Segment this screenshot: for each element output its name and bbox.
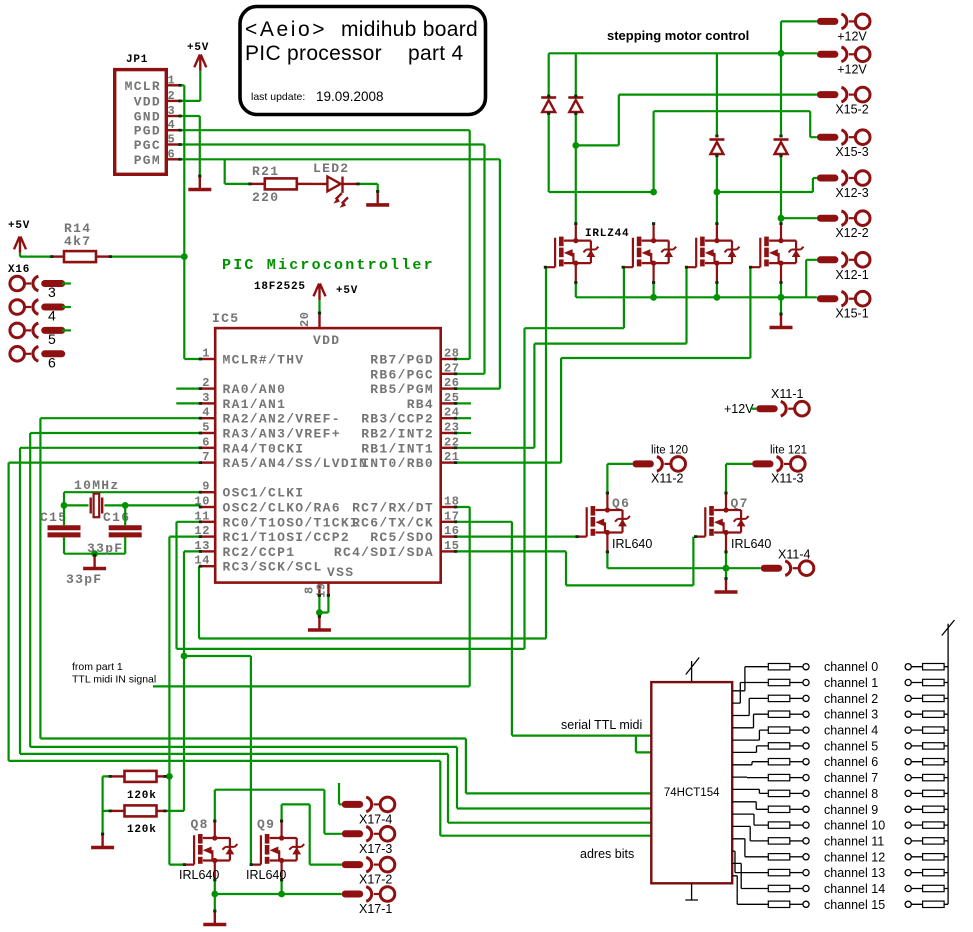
svg-text:3: 3 (168, 104, 176, 118)
wire VSS pins to ground (319, 595, 328, 612)
LED LED2 (311, 177, 358, 193)
wire stub RB3 (456, 417, 471, 419)
IC5 pin 2 RA0/AN0 (200, 387, 215, 389)
connector pin +12V (820, 14, 870, 29)
svg-text:28: 28 (444, 347, 460, 361)
svg-text:RB3/CCP2: RB3/CCP2 (361, 412, 434, 427)
svg-text:channel 6: channel 6 (824, 755, 878, 769)
svg-text:channel 8: channel 8 (824, 787, 878, 801)
IC5 pin 26 RB5/PGM (441, 387, 456, 389)
svg-text:RB6/PGC: RB6/PGC (370, 367, 434, 382)
wire 120k1 right (165, 775, 169, 777)
resistor channel 14 (left) (768, 885, 790, 891)
right channel rail (942, 620, 955, 904)
svg-text:channel 11: channel 11 (824, 834, 884, 848)
svg-text:RC4/SDI/SDA: RC4/SDI/SDA (334, 545, 434, 560)
resistor channel 9 (right) (923, 806, 945, 812)
crystal Q1 10MHz (91, 498, 103, 514)
resistor channel 2 (left) (768, 695, 790, 701)
wire 74HCT154 output 11 (732, 826, 768, 841)
node XTAL1 (61, 502, 68, 509)
wire net ADR2: IC5 pin6 RA4 to 74HCT154 (20, 448, 651, 823)
wire D3 to M3 drain (716, 156, 718, 224)
junction 120k2 riser (181, 653, 188, 660)
svg-text:33pF: 33pF (87, 541, 123, 556)
svg-text:PIC processor: PIC processor (245, 42, 382, 65)
IC5 pin 18 RC7/RX/DT (441, 506, 456, 508)
resistor channel 0 (left) (768, 664, 790, 670)
IC5 pin 14 RC3/SCK/SCL (200, 565, 215, 567)
IC5 pin 20 VDD (318, 313, 320, 328)
svg-text:serial TTL midi: serial TTL midi (561, 718, 642, 732)
connector pin X15-1 (820, 291, 870, 306)
svg-text:6: 6 (48, 354, 56, 370)
wire 74HCT154 output 3 (732, 714, 768, 728)
wire 74HCT154 output 4 (732, 730, 768, 740)
svg-text:GND: GND (134, 110, 161, 125)
connector pin X12-2 (820, 211, 870, 226)
connector X11-2 (636, 457, 686, 472)
wire stub RA0 (176, 388, 200, 390)
svg-text:lite 120: lite 120 (651, 445, 688, 457)
wire to ground (IC5 VSS) (318, 613, 320, 617)
svg-text:+5V: +5V (187, 42, 209, 54)
connector pin X12-1 (820, 252, 870, 267)
wire net MIDI-IN: IC5 pin18 RX from part 1 (153, 507, 470, 686)
junction M3 drain net (714, 189, 721, 196)
svg-text:10MHz: 10MHz (74, 478, 120, 493)
IC5 pin 23 RB2/INT2 (441, 432, 456, 434)
IC5 pin 27 RB6/PGC (441, 373, 456, 375)
svg-text:MCLR#/THV: MCLR#/THV (223, 353, 305, 368)
wire net IC5 pin16 RC5 to Q6 gate (456, 535, 577, 537)
wire +5V to R14 (20, 253, 52, 257)
wire Q6 drain to X11-2 (607, 464, 632, 493)
node channel 9 (803, 806, 809, 812)
wire Q9 drain to X17-2 (282, 804, 342, 864)
capacitor C16 (109, 528, 142, 535)
svg-text:RA1/AN1: RA1/AN1 (223, 397, 287, 412)
IC 74HCT154 body (651, 682, 732, 883)
resistor channel 15 (left) (768, 901, 790, 907)
svg-text:4: 4 (48, 308, 56, 324)
junction caps (91, 550, 98, 557)
svg-text:+5V: +5V (8, 220, 30, 232)
wire net ADR1: IC5 pin5 RA3 to 74HCT154 (30, 433, 651, 809)
svg-text:5: 5 (202, 421, 210, 435)
connector pin X12-3 (820, 171, 870, 186)
svg-text:IRL640: IRL640 (731, 537, 771, 551)
title block frame (240, 7, 486, 115)
svg-text:channel 12: channel 12 (824, 850, 885, 864)
svg-text:last update:: last update: (251, 91, 305, 103)
ground (IC5 VSS) (308, 617, 331, 631)
supply +5V (R14) (14, 237, 26, 253)
svg-text:LED2: LED2 (313, 161, 349, 176)
IC5 pin 8 VSS (318, 583, 320, 596)
node XTAL2 (122, 502, 129, 509)
resistor R 120k (1) (125, 771, 157, 782)
svg-text:4k7: 4k7 (64, 234, 91, 249)
svg-text:RA3/AN3/VREF+: RA3/AN3/VREF+ (223, 427, 341, 442)
svg-text:IC5: IC5 (212, 311, 239, 326)
svg-text:Q7: Q7 (731, 496, 749, 511)
svg-text:X12-1: X12-1 (835, 268, 868, 282)
node channel 8 (803, 790, 809, 796)
svg-text:IRL640: IRL640 (612, 537, 652, 551)
svg-text:midihub board: midihub board (341, 18, 478, 41)
wire net X12-3 (717, 178, 817, 192)
resistor channel 6 (right) (923, 759, 945, 765)
svg-text:20: 20 (298, 311, 312, 327)
svg-text:RC0/T1OSO/T1CKI: RC0/T1OSO/T1CKI (223, 515, 360, 530)
pin connection marks (178, 84, 181, 87)
junction source rail M2 (650, 294, 657, 301)
capacitor C15 (48, 528, 81, 535)
junction VSS (316, 609, 323, 616)
wire 74HCT154 output 10 (732, 814, 768, 825)
node channel 7 (803, 775, 809, 781)
wire D2 to M1 drain (575, 114, 577, 224)
node channel 8 (right) (905, 790, 911, 796)
wire 120k2 riser (183, 656, 185, 811)
svg-text:27: 27 (444, 361, 460, 375)
node channel 3 (right) (905, 711, 911, 717)
svg-text:RA4/T0CKI: RA4/T0CKI (223, 441, 305, 456)
ground (crystal) (83, 555, 106, 569)
wire net GATE1: IC5 pin14 RC3 to M1 gate (199, 267, 546, 638)
svg-text:19.09.2008: 19.09.2008 (316, 89, 384, 104)
wire OSC2 / crystal right (104, 504, 200, 506)
svg-text:channel 15: channel 15 (824, 898, 885, 912)
resistor channel 11 (left) (768, 838, 790, 844)
node channel 12 (803, 854, 809, 860)
svg-text:X17-2: X17-2 (359, 873, 392, 887)
connector X11-4 (764, 561, 814, 576)
74HCT154 top no-connect tick (686, 658, 699, 683)
node channel 15 (803, 901, 809, 907)
node channel 7 (right) (905, 775, 911, 781)
svg-text:X15-3: X15-3 (835, 145, 868, 159)
wire net PGD: JP1 pin4 to IC5 pin28 (180, 130, 470, 359)
svg-text:channel 9: channel 9 (824, 803, 878, 817)
wire 74HCT154 output 5 (732, 746, 768, 753)
resistor channel 4 (right) (923, 727, 945, 733)
node channel 14 (right) (905, 885, 911, 891)
node channel 6 (right) (905, 759, 911, 765)
wire 74HCT154 output 8 (732, 789, 768, 793)
svg-text:channel 10: channel 10 (824, 819, 885, 833)
svg-text:X16: X16 (8, 264, 30, 276)
wire sources down (576, 283, 781, 298)
transistor Q8 IRL640 (184, 821, 237, 880)
wire 74HCT154 output 2 (732, 698, 768, 715)
connector pin X15-3 (820, 130, 870, 145)
diode D3 (709, 140, 724, 155)
resistor channel 10 (left) (768, 822, 790, 828)
svg-text:X12-2: X12-2 (835, 226, 868, 240)
wire rail to D4 (780, 53, 782, 136)
node channel 15 (right) (905, 901, 911, 907)
svg-text:channel 2: channel 2 (824, 692, 878, 706)
svg-text:<Aeio>: <Aeio> (245, 18, 327, 41)
X16 pin 5 (10, 323, 62, 338)
svg-text:channel 4: channel 4 (824, 724, 878, 738)
X16 pin 6 (10, 347, 62, 362)
resistor channel 5 (left) (768, 743, 790, 749)
svg-text:JP1: JP1 (126, 54, 148, 66)
wire R14 to MCLR net (110, 256, 184, 258)
resistor channel 8 (left) (768, 790, 790, 796)
wire D1 to M2 drain net (549, 114, 654, 193)
wire 74HCT154 output 1 (732, 683, 768, 704)
node channel 4 (right) (905, 727, 911, 733)
svg-text:PIC Microcontroller: PIC Microcontroller (222, 257, 435, 274)
connector pin X17-2 (345, 857, 395, 872)
IC5 pin 21 INT0/RB0 (441, 461, 456, 463)
junction X12-2 net (778, 215, 785, 222)
svg-text:74HCT154: 74HCT154 (664, 787, 720, 799)
node channel 2 (803, 695, 809, 701)
svg-text:RB1/INT1: RB1/INT1 (361, 441, 434, 456)
svg-text:X11-1: X11-1 (771, 387, 803, 401)
svg-text:RC2/CCP1: RC2/CCP1 (223, 545, 296, 560)
node channel 1 (right) (905, 679, 911, 685)
resistor R21 (250, 183, 265, 185)
svg-text:RB5/PGM: RB5/PGM (370, 382, 434, 397)
wire stub RB2 (456, 432, 471, 434)
wire C16 stems (124, 505, 126, 553)
junction Q8 source (211, 891, 218, 898)
wire net X15-2 (576, 95, 817, 146)
transistor Q6 IRL640 (577, 493, 630, 552)
wire net PGM: JP1 pin6 to IC5 pin26 (180, 159, 500, 388)
wire 74HCT154 output 15 (732, 876, 768, 905)
svg-text:14: 14 (194, 554, 210, 568)
IC5 pin 5 RA3/AN3/VREF+ (200, 432, 215, 434)
IC5 pin 13 RC2/CCP1 (200, 550, 215, 552)
resistor R14 (52, 255, 64, 257)
ground (Q6/Q7) (715, 579, 738, 593)
IC5 pin 15 RC4/SDI/SDA (441, 550, 456, 552)
wire net GATE2: IC5 pin11 RC0 to M2 gate (177, 267, 624, 649)
wire net GATE4: IC5 pin21 RB0 to M4 gate (456, 267, 751, 462)
wire to X11-4 (726, 567, 761, 569)
wire rail to D3 (716, 53, 718, 136)
wire net SERIAL: IC5 pin17 TX to 74HCT154 (456, 522, 652, 753)
wire 74HCT154 output 9 (732, 802, 768, 810)
wire X17-4 stub (339, 783, 342, 804)
svg-text:7: 7 (202, 450, 210, 464)
svg-text:RC7/RX/DT: RC7/RX/DT (352, 501, 434, 516)
IC5 pin 1 MCLR#/THV (200, 358, 215, 360)
svg-text:channel 14: channel 14 (824, 882, 885, 896)
transistor M1 IRLZ44 (545, 224, 598, 283)
svg-text:18F2525: 18F2525 (254, 281, 306, 293)
svg-text:3: 3 (202, 391, 210, 405)
junction source rail M3 (714, 294, 721, 301)
svg-text:RC6/TX/CK: RC6/TX/CK (352, 515, 434, 530)
wire OSC1 to crystal (64, 492, 200, 505)
svg-text:X15-2: X15-2 (835, 103, 868, 117)
connector pin X17-3 (345, 827, 395, 842)
wire net MCLR: JP1 pin1 down to IC5 pin1 (180, 85, 200, 359)
svg-text:adres bits: adres bits (580, 847, 634, 861)
connector pin X17-1 (345, 887, 395, 902)
wire 74HCT154 output 6 (732, 762, 768, 765)
junction source rail M4 (778, 294, 785, 301)
IC5 pin 4 RA2/AN2/VREF- (200, 417, 215, 419)
svg-text:VDD: VDD (313, 333, 340, 348)
svg-text:+12V: +12V (837, 62, 867, 76)
node channel 13 (right) (905, 870, 911, 876)
svg-text:5: 5 (48, 331, 56, 347)
svg-text:+12V: +12V (837, 29, 867, 43)
svg-text:INT0/RB0: INT0/RB0 (361, 456, 434, 471)
svg-text:channel 3: channel 3 (824, 708, 878, 722)
wire net X15-1 source rail (576, 296, 817, 298)
svg-text:part 4: part 4 (408, 42, 464, 65)
ground (Q8/Q9) (203, 911, 226, 925)
svg-text:RB7/PGD: RB7/PGD (370, 353, 434, 368)
junction Q9 source (278, 891, 285, 898)
resistor channel 12 (right) (923, 854, 945, 860)
svg-text:X17-3: X17-3 (359, 842, 392, 856)
ground (LED2) (366, 191, 389, 205)
IC5 pin 19 VSS (327, 583, 329, 596)
node channel 10 (803, 822, 809, 828)
wire to ground (stepper) (780, 297, 782, 314)
resistor channel 1 (right) (923, 679, 945, 685)
node channel 2 (right) (905, 695, 911, 701)
svg-text:RC5/SDO: RC5/SDO (370, 530, 434, 545)
resistor channel 3 (right) (923, 711, 945, 717)
ground (120k) (91, 834, 114, 848)
svg-text:Q8: Q8 (191, 817, 209, 832)
junction M2 drain net (650, 189, 657, 196)
resistor channel 14 (right) (923, 885, 945, 891)
connector JP1 (115, 70, 167, 175)
resistor channel 1 (left) (768, 679, 790, 685)
svg-text:channel 7: channel 7 (824, 771, 878, 785)
svg-text:120k: 120k (127, 824, 157, 836)
svg-text:X11-3: X11-3 (771, 472, 803, 486)
op-amp IC5 body (PIC18F2525) (215, 328, 441, 582)
svg-text:5: 5 (168, 133, 176, 147)
junction +12V rail (778, 50, 785, 57)
connector pin X17-4 (345, 797, 395, 812)
svg-text:19: 19 (315, 582, 329, 598)
wire net ADR0: IC5 pin4 RA2 to 74HCT154 (40, 418, 651, 793)
wire crystal left (64, 504, 89, 506)
supply +5V (JP1) (194, 55, 206, 71)
svg-text:channel 0: channel 0 (824, 660, 878, 674)
svg-text:stepping motor control: stepping motor control (607, 28, 749, 43)
resistor channel 13 (right) (923, 869, 945, 875)
svg-text:2: 2 (202, 376, 210, 390)
IC5 pin 16 RC5/SDO (441, 535, 456, 537)
node channel 0 (803, 664, 809, 670)
svg-text:9: 9 (202, 480, 210, 494)
connector pin +12V (820, 47, 870, 62)
wire JP1 pin2 to +5V (180, 71, 200, 101)
svg-text:6: 6 (202, 435, 210, 449)
svg-text:VSS: VSS (327, 565, 354, 580)
svg-text:channel 1: channel 1 (824, 676, 878, 690)
resistor channel 4 (left) (768, 727, 790, 733)
transistor Q7 IRL640 (696, 493, 749, 552)
diode D1 (541, 98, 556, 113)
node channel 3 (803, 711, 809, 717)
svg-text:2: 2 (168, 89, 176, 103)
junction X11-4 net (723, 565, 730, 572)
wire net PGC: JP1 pin5 to IC5 pin27 (180, 145, 485, 374)
wire Q8 drain to X17-3 (215, 790, 342, 834)
wire stub RC1 (169, 535, 200, 537)
diode D4 (774, 140, 789, 155)
resistor channel 12 (left) (768, 854, 790, 860)
IC5 pin 22 RB1/INT1 (441, 447, 456, 449)
svg-text:OSC1/CLKI: OSC1/CLKI (223, 486, 305, 501)
resistor channel 13 (left) (768, 869, 790, 875)
svg-text:MCLR: MCLR (125, 79, 161, 94)
svg-text:120k: 120k (127, 790, 157, 802)
node channel 9 (right) (905, 806, 911, 812)
wire 74HCT154 output 13 (732, 851, 768, 873)
resistor channel 10 (right) (923, 822, 945, 828)
svg-text:RA5/AN4/SS/LVDIN: RA5/AN4/SS/LVDIN (223, 456, 369, 471)
wire net ADR3: IC5 pin7 RA5 to 74HCT154 (9, 463, 652, 836)
connector X11-3 (756, 457, 806, 472)
svg-text:VDD: VDD (134, 94, 161, 109)
wire net GATE-Q9: IC5 pin13 RC2 to Q9 gate (184, 551, 251, 864)
X16 pin 3 (10, 276, 62, 291)
svg-text:X12-3: X12-3 (835, 186, 868, 200)
node channel 12 (right) (905, 854, 911, 860)
svg-text:1: 1 (202, 347, 210, 361)
wire 74HCT154 output 14 (732, 863, 768, 888)
svg-text:channel 13: channel 13 (824, 866, 885, 880)
IC5 pin 17 RC6/TX/CK (441, 521, 456, 523)
svg-text:X17-1: X17-1 (359, 902, 392, 916)
wire net X12-2 (781, 217, 817, 219)
svg-text:4: 4 (168, 118, 176, 132)
wire sources to X17-1 (215, 880, 342, 894)
wire net GATE-Q8: IC5 pin12 RC1 down to Q8 gate (169, 537, 184, 865)
svg-text:RA2/AN2/VREF-: RA2/AN2/VREF- (223, 412, 341, 427)
IC5 pin 12 RC1/T1OSI/CCP2 (200, 535, 215, 537)
connector X11-1 (760, 401, 810, 416)
svg-text:26: 26 (444, 376, 460, 390)
resistor channel 7 (left) (768, 774, 790, 780)
wire net X12-1 (806, 260, 817, 298)
wire stub RA1 (176, 402, 200, 404)
wire 120k left to ground (103, 776, 111, 834)
svg-text:220: 220 (252, 190, 279, 205)
transistor M3 IRLZ44 (687, 224, 740, 283)
wire LED2 cathode to ground (358, 184, 378, 192)
resistor channel 15 (right) (923, 901, 945, 907)
node channel 5 (right) (905, 743, 911, 749)
X16 pin 4 (10, 300, 62, 315)
wire rail to D2 (575, 53, 577, 96)
resistor channel 8 (right) (923, 790, 945, 796)
svg-text:RA0/AN0: RA0/AN0 (223, 382, 287, 397)
svg-text:X11-4: X11-4 (778, 548, 810, 562)
wire caps to ground (64, 553, 125, 555)
svg-text:33pF: 33pF (66, 572, 102, 587)
svg-text:PGD: PGD (134, 124, 161, 139)
